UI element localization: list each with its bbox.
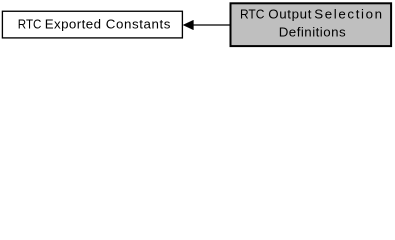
node: RTC Exported Constants bbox=[2, 11, 182, 38]
svg-text:Constants: Constants bbox=[106, 17, 171, 32]
wire: dependency edge bbox=[183, 20, 230, 30]
svg-text:Exported: Exported bbox=[45, 17, 101, 32]
svg-text:Definitions: Definitions bbox=[279, 24, 346, 39]
svg-text:RTC: RTC bbox=[240, 7, 265, 22]
svg-text:Output: Output bbox=[268, 7, 311, 22]
svg-text:RTC: RTC bbox=[18, 17, 42, 32]
svg-text:Selection: Selection bbox=[314, 7, 382, 22]
node: RTC Output Selection Definitions (current node, gray) bbox=[231, 3, 392, 46]
